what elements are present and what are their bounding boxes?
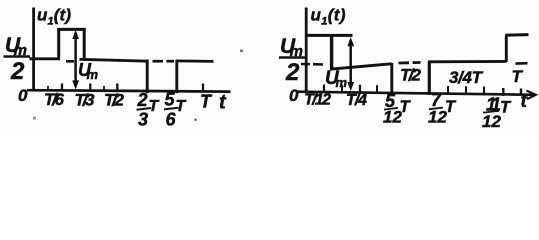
- right tick T: [520, 89, 522, 96]
- svg-text:T: T: [149, 98, 160, 115]
- right tick 1/2+: [447, 86, 449, 93]
- right waveform: Um/2 level 7/12T to 11/12T: [428, 60, 507, 63]
- speck lower left: [33, 117, 36, 120]
- svg-text:t: t: [521, 91, 528, 112]
- svg-text:2: 2: [10, 58, 25, 85]
- right tick 5/6T: [483, 87, 485, 94]
- right waveform vertical drop at T/12: [330, 34, 333, 70]
- left Um arrow upper head: [72, 30, 79, 39]
- svg-text:0: 0: [289, 86, 299, 105]
- right dashed Um/2 dash 2: [413, 61, 421, 64]
- right dashed Um/2 level after 11/12T: [516, 62, 528, 65]
- right fraction 11/12 T : bar: [483, 111, 499, 113]
- svg-text:T/4: T/4: [346, 92, 367, 109]
- right waveform: Um level from 0 extended to arrow: [305, 34, 353, 37]
- right tick T/6: [341, 85, 343, 92]
- left dashed baseline inside pulse: [66, 60, 74, 63]
- right x-axis: [298, 92, 535, 95]
- right x-axis arrowhead: [527, 91, 536, 100]
- right axis tick at Um/2 level: [301, 63, 310, 66]
- right y-axis: [305, 8, 308, 94]
- svg-text:0: 0: [18, 86, 28, 105]
- left dashed Um/2 segment dash 1: [153, 60, 164, 63]
- svg-text:2: 2: [137, 90, 148, 110]
- left fraction 2/3 T : bar: [137, 108, 152, 110]
- right dashed Um/2 dash 1: [399, 61, 410, 64]
- left tick T/12: [47, 86, 49, 91]
- svg-text:2: 2: [285, 59, 300, 86]
- left tick T: [202, 84, 204, 92]
- speck below 5/6: [195, 119, 197, 121]
- left pulse left edge at T/6: [57, 28, 60, 60]
- right tick T/3: [376, 85, 378, 92]
- right fraction 7/12 T : bar: [429, 108, 443, 110]
- right label Um/2 : fraction bar: [279, 56, 306, 59]
- right Um measuring arrow shaft: [349, 40, 352, 88]
- left x-axis: [27, 90, 231, 91]
- left pulse top at Um: [57, 28, 85, 31]
- right waveform vertical rise at 11/12T: [505, 35, 508, 62]
- left tick T/2: [116, 84, 118, 92]
- right tick T/12: [323, 85, 325, 93]
- svg-text:T/6: T/6: [44, 90, 65, 109]
- left pulse right edge at T/3: [83, 28, 86, 60]
- svg-text:T/3: T/3: [75, 91, 96, 110]
- left waveform vertical drop at 2/3T: [146, 60, 149, 94]
- right waveform: Um level 11/12T to T: [505, 33, 528, 37]
- svg-text:T/2: T/2: [104, 91, 125, 110]
- svg-text:u1(t): u1(t): [311, 6, 346, 28]
- right waveform vertical drop at 5/12T: [390, 63, 393, 94]
- left waveform: Um/2 level from T/3 to 2/3T: [80, 59, 149, 61]
- right fraction 5/12 T : bar: [384, 108, 398, 110]
- left y-axis: [32, 8, 35, 92]
- svg-text:T/12: T/12: [304, 92, 331, 109]
- left waveform: Um/2 level from 5/6T to past T: [176, 60, 214, 63]
- svg-text:5: 5: [165, 90, 176, 110]
- right tick T/4: [359, 85, 361, 93]
- svg-text:u1(t): u1(t): [37, 6, 71, 28]
- svg-text:T: T: [512, 67, 524, 86]
- left Um arrow lower head: [72, 80, 79, 89]
- right waveform: Um/2 level T/12 to 5/12T: [330, 64, 391, 69]
- left tick T/3: [89, 84, 91, 92]
- left fraction 5/6 T : bar: [164, 108, 179, 110]
- left tick 5/12T: [103, 86, 105, 91]
- speck between plots: [240, 50, 243, 53]
- right Um arrow upper head: [347, 37, 354, 46]
- svg-text:3/4T: 3/4T: [449, 68, 484, 87]
- right tick 2/3T: [465, 86, 467, 93]
- left dashed Um/2 segment dash 2: [167, 60, 175, 63]
- svg-text:3: 3: [138, 110, 148, 130]
- left label Um/2 : fraction bar: [4, 55, 31, 58]
- left waveform vertical rise at 5/6T: [175, 60, 178, 93]
- svg-text:T/2: T/2: [400, 66, 422, 85]
- right tick 11/12T: [502, 88, 504, 96]
- svg-text:12: 12: [482, 112, 502, 131]
- left tick T/6: [61, 84, 63, 92]
- right dashed baseline left of T/12: [313, 63, 323, 66]
- right Um arrow lower head: [347, 82, 354, 91]
- left waveform: baseline Um/2 from axis to pulse: [30, 57, 61, 60]
- right waveform vertical rise at 7/12T: [428, 61, 431, 95]
- left Um measuring arrow shaft: [74, 33, 77, 87]
- svg-text:T: T: [176, 98, 187, 115]
